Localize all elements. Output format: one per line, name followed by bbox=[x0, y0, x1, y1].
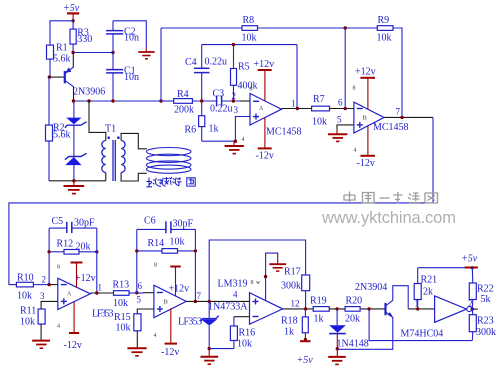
node A (R4/C3/C4/R6) bbox=[200, 99, 203, 102]
wire T1 secondary top lead bbox=[121, 133, 147, 148]
svg-text:10n: 10n bbox=[124, 33, 139, 44]
wire base feedback vertical bbox=[369, 309, 472, 341]
svg-text:8: 8 bbox=[251, 280, 254, 286]
wire Q1 emitter up to R3 node bbox=[72, 53, 74, 68]
node zener junction bbox=[208, 300, 211, 303]
ground near C2 bbox=[138, 48, 154, 59]
svg-text:+12v: +12v bbox=[75, 273, 96, 284]
svg-text:R11: R11 bbox=[20, 306, 36, 317]
svg-text:30pF: 30pF bbox=[74, 218, 95, 229]
resistor R6 bbox=[185, 101, 219, 141]
svg-text:R9: R9 bbox=[378, 15, 390, 26]
wire +5v rail top bbox=[418, 267, 473, 269]
svg-text:C3: C3 bbox=[213, 89, 225, 100]
svg-text:1k: 1k bbox=[314, 314, 324, 325]
resistor R22 bbox=[469, 268, 493, 309]
wire +5v to R1 top bbox=[50, 21, 73, 45]
wire feedback top row bbox=[202, 44, 297, 46]
node zener ground bbox=[208, 347, 211, 350]
svg-text:R17: R17 bbox=[284, 267, 301, 278]
svg-text:4: 4 bbox=[354, 148, 357, 154]
LM319 gnd hook bbox=[264, 253, 286, 301]
label coil chinese "ground induction coil" bbox=[146, 177, 195, 187]
wire op1 output bbox=[282, 108, 312, 110]
svg-text:20k: 20k bbox=[76, 242, 91, 253]
wire Q2 collector detour bbox=[393, 286, 408, 309]
node C6 fb right bbox=[194, 300, 197, 303]
svg-text:200k: 200k bbox=[174, 105, 194, 116]
resistor R4 bbox=[174, 89, 194, 116]
op-amp U2A LF353 bbox=[58, 278, 114, 319]
node D4 ground junction bbox=[336, 347, 339, 350]
svg-text:R4: R4 bbox=[177, 89, 189, 100]
power +5v bar bbox=[461, 254, 478, 270]
wire C5 left vertical bbox=[48, 228, 50, 285]
wire bottom rail left bbox=[49, 180, 106, 182]
svg-text:2k: 2k bbox=[423, 287, 433, 298]
T1 phase dot primary bbox=[107, 136, 110, 139]
wire return loop to bottom stage bbox=[9, 117, 433, 284]
wire pin3 to R11 bbox=[41, 301, 58, 309]
node R17/R18/out bbox=[304, 307, 307, 310]
inductor loop coil L1 bbox=[146, 148, 191, 174]
svg-text:R20: R20 bbox=[346, 296, 363, 307]
svg-text:8: 8 bbox=[353, 86, 356, 92]
svg-text:8: 8 bbox=[250, 87, 253, 93]
op-amp U1B MC1458 bbox=[354, 102, 409, 133]
op-amp U1A MC1458 bbox=[250, 94, 302, 138]
svg-text:w: w bbox=[256, 280, 261, 286]
svg-text:B: B bbox=[164, 299, 169, 306]
wire R9 right to output bbox=[393, 28, 402, 117]
svg-text:12: 12 bbox=[291, 299, 300, 309]
node pin2/R5 bbox=[232, 99, 235, 102]
node R21 bottom bbox=[416, 307, 419, 310]
svg-text:10k: 10k bbox=[20, 317, 35, 328]
watermark line1 bbox=[344, 192, 438, 204]
svg-text:R8: R8 bbox=[243, 15, 255, 26]
svg-text:LF353: LF353 bbox=[178, 317, 202, 328]
svg-text:10k: 10k bbox=[17, 291, 32, 302]
node pin6/R14 bbox=[135, 291, 138, 294]
wire R3 node to C2/C1 node bbox=[73, 52, 113, 54]
svg-text:10k: 10k bbox=[377, 33, 392, 44]
power -12v op2 bbox=[357, 126, 376, 169]
svg-text:C4: C4 bbox=[185, 57, 197, 68]
svg-text:2N3904: 2N3904 bbox=[355, 282, 387, 293]
svg-text:+5v: +5v bbox=[461, 254, 478, 265]
svg-text:MC1458: MC1458 bbox=[266, 127, 302, 138]
ground R15 bbox=[127, 348, 146, 356]
power +12v lf2 bbox=[169, 267, 190, 297]
svg-text:2: 2 bbox=[232, 91, 237, 101]
capacitor C3 bbox=[210, 89, 233, 115]
node C2/C1 junction bbox=[111, 51, 114, 54]
svg-text:R19: R19 bbox=[310, 296, 327, 307]
svg-text:+12v: +12v bbox=[355, 67, 376, 78]
svg-text:www.yktchina.com: www.yktchina.com bbox=[321, 209, 456, 227]
wire T1 secondary bottom lead bbox=[121, 173, 147, 182]
wire T1 primary top lead bbox=[89, 101, 106, 141]
svg-text:2: 2 bbox=[42, 275, 47, 285]
svg-text:300k: 300k bbox=[476, 327, 496, 338]
capacitor C2 bbox=[106, 21, 139, 53]
ground below zener D3 bbox=[201, 349, 219, 365]
resistor R10 bbox=[16, 273, 33, 302]
transistor Q1 2N3906 bbox=[65, 67, 105, 97]
resistor R19 bbox=[310, 296, 329, 325]
node pin6 junction bbox=[344, 107, 347, 110]
resistor R14 bbox=[137, 237, 196, 254]
svg-text:A: A bbox=[67, 292, 72, 298]
svg-text:+12v: +12v bbox=[254, 59, 275, 70]
capacitor C1 bbox=[106, 53, 139, 102]
power +12v lf1 bbox=[71, 263, 96, 288]
node R14 right bbox=[194, 249, 197, 252]
svg-text:R1: R1 bbox=[56, 43, 68, 54]
svg-text:5k: 5k bbox=[481, 294, 491, 305]
svg-text:R5: R5 bbox=[238, 62, 250, 73]
wire C6 left vertical bbox=[136, 229, 138, 292]
svg-text:0.22u: 0.22u bbox=[205, 57, 228, 68]
node R5 top bbox=[232, 43, 235, 46]
svg-text:10k: 10k bbox=[312, 117, 327, 128]
svg-text:R16: R16 bbox=[239, 328, 256, 339]
wire R7 to op2 pin6 bbox=[330, 108, 354, 110]
transformer T1 bbox=[89, 101, 147, 181]
svg-text:10n: 10n bbox=[124, 72, 139, 83]
svg-text:LM319: LM319 bbox=[218, 279, 248, 290]
power +12v op2 bbox=[355, 67, 376, 110]
wire inverter output stub bbox=[472, 308, 478, 310]
svg-text:7: 7 bbox=[197, 291, 202, 301]
wire op out to R13 bbox=[90, 292, 113, 294]
resistor R12 bbox=[49, 239, 97, 255]
svg-text:-12v: -12v bbox=[64, 340, 82, 351]
power -12v lf1 bbox=[64, 302, 82, 351]
svg-text:6: 6 bbox=[338, 98, 343, 108]
svg-text:4: 4 bbox=[242, 137, 245, 143]
wire lf2 output bbox=[186, 300, 249, 302]
power -12v lf2 bbox=[161, 308, 179, 358]
node rail R4/R8 bbox=[159, 99, 162, 102]
power +5v supply bbox=[63, 3, 80, 21]
svg-text:1N4148: 1N4148 bbox=[337, 339, 369, 350]
ground below op1 bbox=[225, 141, 244, 153]
wire pin5 to R15 bbox=[137, 309, 154, 314]
wire R4 to node A bbox=[192, 100, 216, 102]
capacitor C4 bbox=[185, 45, 227, 101]
node rail collector bbox=[72, 99, 75, 102]
power +12v op1 bbox=[254, 59, 275, 101]
T1 phase dot secondary bbox=[117, 136, 120, 139]
svg-text:3: 3 bbox=[234, 105, 239, 115]
resistor R9 bbox=[377, 15, 394, 43]
node +5v junction bbox=[71, 19, 74, 22]
resistor R2 bbox=[46, 123, 71, 181]
wire main rail y=101 bbox=[74, 100, 162, 102]
resistor R8 bbox=[242, 15, 258, 43]
wire feedback right vertical bbox=[296, 45, 298, 109]
ground R11 bbox=[32, 341, 50, 349]
wire R8 to R9 bbox=[258, 27, 378, 29]
capacitor C5 bbox=[49, 216, 97, 233]
svg-text:1: 1 bbox=[291, 99, 296, 109]
node C5/R12 left bottom bbox=[47, 283, 50, 286]
wire R8 row bbox=[161, 27, 242, 29]
node rail T1 bbox=[87, 99, 90, 102]
resistor R1 bbox=[47, 43, 71, 65]
svg-text:C5: C5 bbox=[52, 216, 64, 227]
wire LM319 output row bbox=[283, 308, 386, 310]
svg-text:+12v: +12v bbox=[169, 284, 190, 295]
resistor R15 bbox=[114, 312, 141, 348]
node feedback/output bbox=[296, 107, 299, 110]
svg-text:R12: R12 bbox=[57, 239, 74, 250]
svg-text:R22: R22 bbox=[477, 284, 494, 295]
wire R4 input bbox=[161, 100, 174, 102]
svg-text:R13: R13 bbox=[113, 280, 130, 291]
svg-text:4: 4 bbox=[233, 290, 238, 300]
svg-text:B: B bbox=[363, 115, 368, 122]
svg-text:1k: 1k bbox=[284, 327, 294, 338]
svg-text:7: 7 bbox=[396, 107, 401, 117]
svg-text:R10: R10 bbox=[17, 273, 34, 284]
wire R8 junction down to pin6 bbox=[344, 28, 346, 109]
wire C2 top to ground bbox=[113, 21, 146, 48]
resistor R21 bbox=[414, 268, 437, 309]
svg-text:10k: 10k bbox=[113, 298, 128, 309]
T1 secondary winding bbox=[121, 141, 125, 173]
wire base of Q1 bbox=[49, 76, 64, 78]
wire Q2 emitter down bbox=[337, 317, 393, 349]
svg-text:6: 6 bbox=[138, 281, 143, 291]
wire R6 bottom to pin3 bbox=[202, 117, 250, 142]
wire op2 pin5 bbox=[337, 125, 354, 130]
wire R10 to pin2 bbox=[33, 284, 47, 286]
wire R2 stem bbox=[48, 77, 50, 125]
wire C5 right vertical bbox=[96, 228, 98, 293]
svg-text:300k: 300k bbox=[281, 281, 301, 292]
svg-text:R21: R21 bbox=[421, 275, 438, 286]
svg-text:400k: 400k bbox=[238, 81, 258, 92]
svg-text:5.6k: 5.6k bbox=[53, 130, 71, 141]
wire Q1 collector down to rail bbox=[73, 86, 75, 101]
node R12 right bbox=[95, 250, 98, 253]
svg-text:30pF: 30pF bbox=[173, 219, 194, 230]
svg-text:0.22u: 0.22u bbox=[210, 104, 233, 115]
wire R8 left vertical bbox=[160, 28, 162, 101]
comparator U3 LM319 bbox=[218, 279, 283, 325]
hysteresis loop wire bbox=[209, 240, 305, 301]
resistor R11 bbox=[20, 306, 45, 341]
svg-text:8: 8 bbox=[57, 265, 60, 271]
svg-text:T1: T1 bbox=[105, 124, 116, 135]
node R3 bottom / emitter bbox=[71, 51, 74, 54]
svg-text:10k: 10k bbox=[116, 323, 131, 334]
ground below zeners bbox=[64, 181, 85, 194]
svg-text:-12v: -12v bbox=[161, 347, 179, 358]
svg-text:4: 4 bbox=[57, 324, 60, 330]
svg-text:8: 8 bbox=[154, 263, 157, 269]
svg-text:R7: R7 bbox=[313, 94, 325, 105]
svg-text:5: 5 bbox=[337, 115, 342, 125]
inverter U4 M74HC04 bbox=[401, 296, 472, 340]
node R8/op2 junction bbox=[344, 26, 347, 29]
resistor R3 bbox=[70, 21, 92, 53]
resistor R20 bbox=[345, 296, 362, 325]
power -12v op1 bbox=[256, 117, 274, 161]
zener D2 bbox=[65, 153, 87, 181]
svg-text:2N3906: 2N3906 bbox=[73, 87, 105, 98]
wire R16 bottom link bbox=[209, 348, 234, 350]
svg-text:-12v: -12v bbox=[256, 151, 274, 162]
wire R13 to pin6 bbox=[129, 292, 143, 294]
svg-text:-12v: -12v bbox=[357, 158, 375, 169]
node ground stub bbox=[234, 140, 237, 143]
svg-text:MC1458: MC1458 bbox=[373, 122, 409, 133]
svg-text:10k: 10k bbox=[237, 339, 252, 350]
ground op2 pin5 bbox=[328, 130, 347, 142]
svg-text:5.6k: 5.6k bbox=[53, 54, 71, 65]
resistor R13 bbox=[113, 280, 130, 310]
svg-text:20k: 20k bbox=[345, 314, 360, 325]
diode D4 1N4148 bbox=[329, 309, 369, 350]
svg-text:R14: R14 bbox=[148, 238, 165, 249]
node R9/output bbox=[400, 116, 403, 119]
svg-text:M74HC04: M74HC04 bbox=[401, 329, 444, 340]
resistor R16 bbox=[230, 317, 255, 350]
zener D3 1N4733A bbox=[201, 301, 249, 348]
svg-text:R18: R18 bbox=[281, 316, 298, 327]
wire R1 bottom to base node bbox=[49, 59, 51, 77]
svg-text:5: 5 bbox=[137, 295, 142, 305]
svg-text:330: 330 bbox=[77, 34, 92, 45]
power +5v R18 bbox=[297, 338, 314, 366]
resistor R5 bbox=[231, 45, 258, 101]
svg-text:1k: 1k bbox=[209, 124, 219, 135]
capacitor C6 bbox=[137, 216, 196, 234]
T1 core bbox=[112, 140, 114, 181]
node ground junction bbox=[72, 179, 75, 182]
svg-text:1: 1 bbox=[98, 283, 103, 293]
zener D1 bbox=[65, 101, 87, 156]
wire inverter input bbox=[408, 308, 434, 310]
svg-text:10k: 10k bbox=[170, 237, 185, 248]
resistor R17 bbox=[281, 267, 310, 309]
resistor R23 bbox=[469, 309, 496, 341]
wire R16 to pin minus bbox=[234, 316, 250, 318]
node base junction bbox=[367, 307, 370, 310]
op-amp U2B LF353 bbox=[154, 285, 202, 327]
node base junction bbox=[48, 75, 51, 78]
svg-text:1N4733A: 1N4733A bbox=[208, 302, 248, 313]
svg-text:3: 3 bbox=[40, 291, 45, 301]
transistor Q2 2N3904 bbox=[355, 282, 394, 318]
svg-text:C6: C6 bbox=[144, 216, 156, 227]
node lf1 out bbox=[95, 291, 98, 294]
svg-text:LF353: LF353 bbox=[92, 309, 114, 320]
svg-text:+5v: +5v bbox=[297, 355, 314, 366]
wire T1 primary bottom lead bbox=[105, 173, 107, 181]
wire C3 to op1 pin2 bbox=[222, 100, 240, 102]
resistor R7 bbox=[312, 94, 330, 128]
node rail C1 bbox=[111, 99, 114, 102]
node R14 left bbox=[135, 249, 138, 252]
svg-text:R15: R15 bbox=[114, 312, 131, 323]
svg-text:10k: 10k bbox=[242, 33, 257, 44]
wire C6 right vertical bbox=[194, 229, 196, 301]
node R12 left bbox=[47, 250, 50, 253]
ground D4 bbox=[328, 349, 346, 365]
svg-text:4: 4 bbox=[154, 333, 157, 339]
wire op2 output bbox=[384, 116, 433, 118]
node output bbox=[471, 307, 474, 310]
svg-text:R6: R6 bbox=[185, 125, 197, 136]
svg-text:R23: R23 bbox=[477, 316, 494, 327]
node R19/R20/diode bbox=[335, 307, 338, 310]
svg-text:A: A bbox=[259, 106, 264, 112]
T1 primary winding bbox=[102, 141, 106, 173]
resistor R18 bbox=[281, 309, 308, 341]
